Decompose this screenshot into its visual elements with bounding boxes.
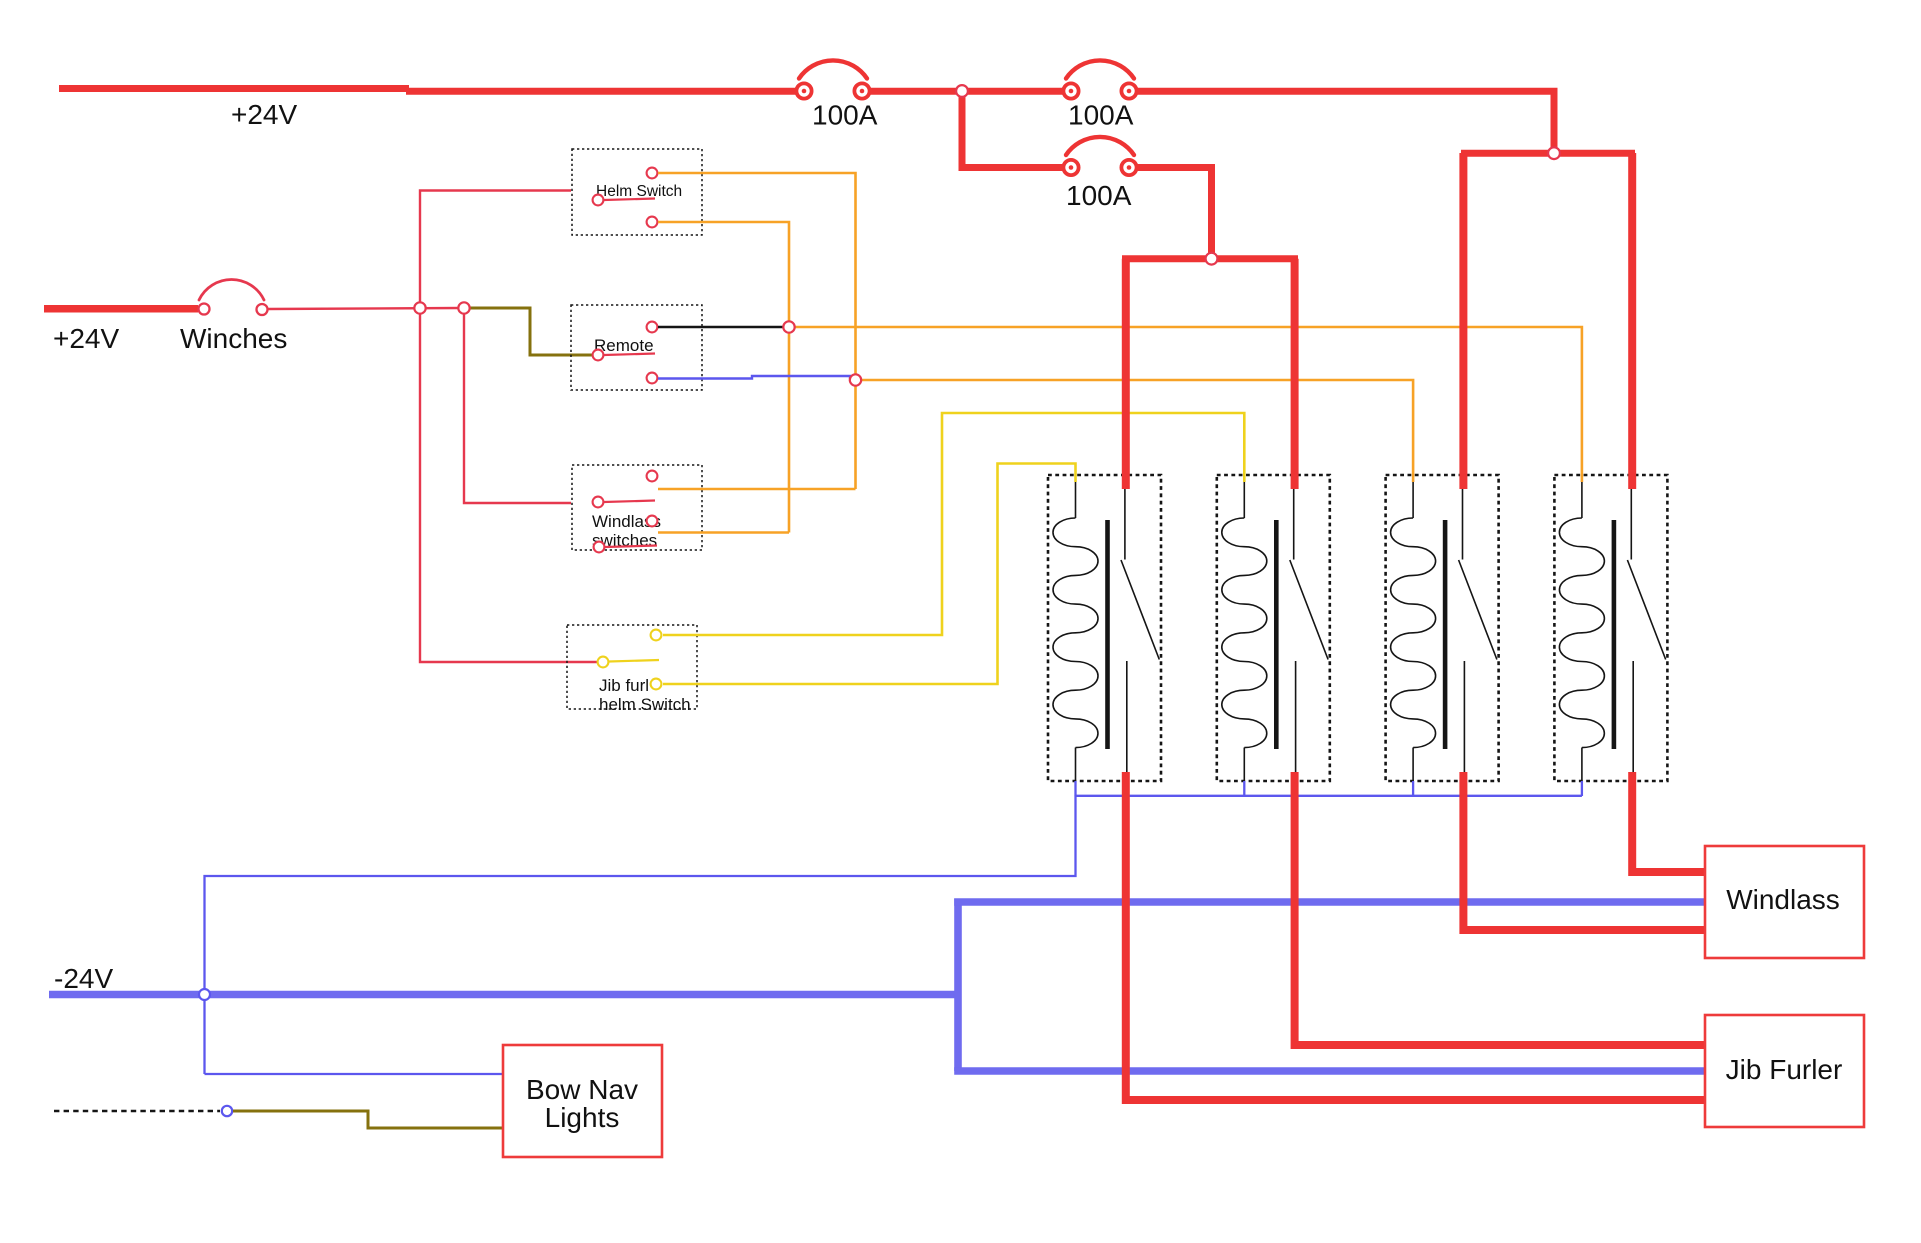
node on main bus — [956, 85, 968, 97]
relay K4 contact fixed lead top — [1630, 489, 1632, 560]
wire relay K4 output to Windlass — [1632, 772, 1705, 872]
relay K4 armature bar — [1612, 520, 1617, 749]
wire relay K1 output to Jib Furler — [1126, 772, 1705, 1100]
relay K3 armature bar — [1443, 520, 1448, 749]
svg-text:100A: 100A — [812, 100, 878, 131]
fuse 100A right terminal — [1121, 83, 1136, 98]
svg-text:-24V: -24V — [54, 963, 113, 994]
relay K3 coil lead bottom — [1412, 748, 1414, 782]
svg-text:+24V: +24V — [231, 99, 297, 130]
Remote common terminal — [593, 350, 604, 361]
node A on winches line — [414, 302, 425, 313]
fuse Winches left terminal — [199, 304, 210, 315]
svg-text:+24V: +24V — [53, 323, 119, 354]
relay K3 contact lever — [1459, 560, 1497, 660]
wire yellow jib furl top to relay K2 coil — [663, 413, 1244, 635]
relay K1 armature bar — [1105, 520, 1110, 749]
Windlass switch1 output terminal — [647, 471, 658, 482]
fuse 100A left terminal — [1063, 83, 1078, 98]
wire blue remote bottom to junction — [658, 376, 850, 379]
Jib furl lever — [609, 660, 659, 662]
Remote lever — [604, 354, 655, 356]
wire up to Helm Switch common — [420, 191, 571, 309]
Helm Switch lever — [604, 199, 655, 201]
Jib furl top terminal — [651, 630, 662, 641]
relay K3 coil bottom blue stub — [1412, 781, 1414, 796]
relay K4 coil lead top — [1581, 482, 1583, 518]
node at bus right corner — [1548, 147, 1560, 159]
fuse 100A right terminal — [854, 83, 869, 98]
fuse 100A arc — [1066, 60, 1134, 78]
dashed wire to bow nav node — [54, 1110, 220, 1112]
Remote box — [571, 305, 702, 390]
svg-text:Bow Nav: Bow Nav — [526, 1074, 638, 1105]
svg-text:Jib furl: Jib furl — [599, 676, 649, 695]
Jib furl helm Switch box — [567, 625, 697, 709]
wire orange helm bottom down — [658, 222, 789, 327]
wire orange junction down to windlass switch1 — [854, 380, 857, 489]
fuse 100A left terminal — [1063, 160, 1078, 175]
wire relay K2 output to Jib Furler — [1295, 772, 1707, 1045]
relay K1 contact lever — [1121, 560, 1159, 660]
wire +24V main bus left segment — [59, 85, 409, 92]
wire node down to fuse3 — [962, 94, 1064, 168]
svg-text:100A: 100A — [1066, 180, 1132, 211]
wire down to Jib furl common — [420, 308, 597, 662]
Jib furl common terminal — [598, 657, 609, 668]
wire orange junction down to windlass switch2 — [788, 327, 791, 533]
wire thick blue to Jib Furler — [954, 1067, 1707, 1075]
wire fuse3 to corner down — [1136, 168, 1212, 259]
wire bus fuse2 to right corner — [1136, 91, 1554, 153]
svg-text:Windlass: Windlass — [1726, 884, 1840, 915]
wire bus fuse1 to fuse2 — [869, 88, 1064, 95]
fuse 100A arc — [799, 60, 867, 78]
wire -24V bus — [49, 991, 958, 999]
Remote top terminal — [647, 322, 658, 333]
svg-text:100A: 100A — [1068, 100, 1134, 131]
Windlass switch2 output terminal — [647, 516, 658, 527]
relay K4 contact fixed lead bottom — [1632, 661, 1634, 772]
relay K2 coil lead top — [1243, 482, 1245, 518]
svg-text:Winches: Winches — [180, 323, 287, 354]
relay K2 contact lever — [1290, 560, 1328, 660]
wire orange windlass switch1 output — [658, 488, 856, 491]
Windlass switches box — [572, 465, 702, 550]
Windlass switch1 lever — [604, 501, 655, 503]
wire +24V winches feed — [44, 305, 198, 313]
node bow nav — [222, 1106, 232, 1116]
wire winches fuse to junctions — [268, 308, 460, 309]
node above relays — [1206, 253, 1218, 265]
relay K2 box — [1217, 475, 1330, 781]
node black/orange junction — [783, 321, 794, 332]
fuse 100A left terminal — [796, 83, 811, 98]
node B on winches line — [458, 302, 469, 313]
relay K3 coil — [1391, 518, 1436, 748]
svg-text:Jib Furler: Jib Furler — [1726, 1054, 1843, 1085]
relay K2 contact fixed lead top — [1293, 489, 1295, 560]
wire orange helm top to junction — [658, 173, 856, 380]
Windlass switch1 common terminal — [593, 497, 604, 508]
relay K1 box — [1048, 475, 1161, 781]
relay K1 contact fixed lead bottom — [1126, 661, 1128, 772]
wire thick blue to Windlass — [954, 898, 1705, 906]
relay K1 coil lead bottom — [1075, 748, 1077, 782]
wire right distribution horizontal — [1461, 150, 1635, 157]
fuse Winches right terminal — [257, 304, 268, 315]
relay K4 box — [1554, 475, 1667, 781]
relay K4 coil lead bottom — [1581, 748, 1583, 782]
wire down to relay K1 contact — [1122, 259, 1130, 489]
relay K3 coil lead top — [1412, 482, 1414, 518]
relay K2 contact fixed lead bottom — [1295, 661, 1297, 772]
relay K2 armature bar — [1274, 520, 1279, 749]
fuse 100A arc — [1066, 137, 1134, 155]
wire olive to Remote common — [469, 308, 592, 355]
wire down to Windlass switches common — [464, 308, 571, 503]
relay K1 coil — [1053, 518, 1098, 748]
wire orange junction to relay K3 coil — [856, 380, 1414, 482]
Jib Furler box — [1705, 1015, 1864, 1127]
Bow Nav Lights box — [503, 1045, 662, 1157]
svg-text:Helm Switch: Helm Switch — [596, 183, 682, 200]
relay K1 coil lead top — [1075, 482, 1077, 518]
wire relay K3 output to Windlass — [1463, 772, 1705, 930]
wire yellow jib furl bottom to relay K1 coil — [663, 464, 1076, 685]
Windlass switch2 lever — [605, 546, 657, 548]
Windlass box — [1705, 846, 1864, 958]
relay K2 coil bottom blue stub — [1243, 781, 1245, 796]
fuse Winches arc — [199, 279, 264, 300]
svg-text:Lights: Lights — [545, 1102, 620, 1133]
wire blue to Bow Nav Lights — [205, 1073, 504, 1075]
wire blue coil return down-left — [205, 796, 1076, 1074]
wire +24V main bus right segment — [406, 88, 797, 95]
Windlass switch2 common terminal — [594, 542, 605, 553]
wire thick blue riser — [954, 899, 962, 1072]
Helm Switch common terminal — [593, 195, 604, 206]
Helm Switch top terminal — [647, 168, 658, 179]
relay K4 contact lever — [1627, 560, 1665, 660]
wire orange junction to relay K4 coil — [789, 327, 1582, 482]
Helm Switch box — [572, 149, 702, 235]
Jib furl bottom terminal — [651, 679, 662, 690]
relay K2 coil lead bottom — [1243, 748, 1245, 782]
relay K1 coil bottom blue stub — [1074, 781, 1076, 796]
wire black remote top to junction — [658, 326, 783, 329]
Helm Switch bottom terminal — [647, 217, 658, 228]
relay K3 box — [1386, 475, 1499, 781]
node -24V junction — [199, 989, 210, 1000]
fuse 100A right terminal — [1121, 160, 1136, 175]
wire orange windlass switch2 output — [658, 531, 789, 534]
wire down to relay K4 contact — [1628, 153, 1636, 489]
wire down to relay K2 contact — [1291, 259, 1299, 489]
node blue/orange junction — [850, 374, 861, 385]
wire blue relay coil return bus — [1076, 795, 1582, 797]
relay K4 coil bottom blue stub — [1581, 781, 1583, 796]
svg-text:helm Switch: helm Switch — [599, 695, 691, 714]
Remote bottom terminal — [647, 373, 658, 384]
relay K2 coil — [1222, 518, 1267, 748]
relay K4 coil — [1559, 518, 1604, 748]
wire down to relay K3 contact — [1459, 153, 1467, 489]
relay K3 contact fixed lead bottom — [1463, 661, 1465, 772]
relay K3 contact fixed lead top — [1462, 489, 1464, 560]
wire olive to Bow Nav Lights — [233, 1111, 503, 1128]
wire relay K1/K2 feed horizontal — [1122, 255, 1298, 262]
relay K1 contact fixed lead top — [1124, 489, 1126, 560]
